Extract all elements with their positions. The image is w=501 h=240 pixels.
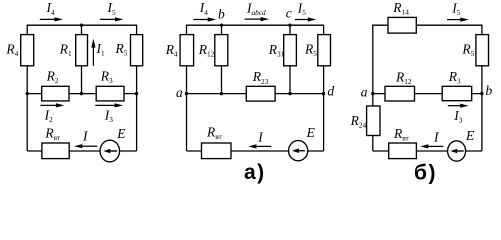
resistor R14 (circuit3)	[388, 17, 416, 33]
resistor R5 (circuit2)	[318, 35, 331, 66]
wire: circuit2 branch c	[289, 25, 291, 93]
junction: circuit1 top node	[80, 24, 83, 27]
resistor R1 (circuit1)	[76, 35, 88, 66]
junction: circuit2 mid R12	[220, 92, 223, 95]
resistor R3 (circuit3)	[442, 86, 472, 100]
resistor R5 (circuit3)	[476, 35, 489, 66]
node c junction (circuit2)	[288, 24, 291, 27]
resistor Rvt (circuit2)	[202, 143, 232, 159]
junction: circuit1 mid-right	[135, 92, 138, 95]
source arrow E (circuit1)	[103, 149, 117, 154]
svg-text:b: b	[218, 7, 225, 22]
source arrow E (circuit3)	[450, 149, 463, 154]
svg-text:d: d	[327, 84, 334, 99]
wire: circuit1 middle horizontal	[27, 93, 136, 95]
current arrow I (circuit3)	[420, 144, 443, 148]
current arrow I3 (circuit3)	[448, 104, 469, 108]
node a junction (circuit2)	[185, 92, 188, 95]
source E (circuit3)	[448, 141, 466, 161]
resistor R24 (circuit3)	[367, 106, 380, 136]
current arrow I4 (circuit2)	[193, 17, 216, 21]
source E (circuit2)	[289, 141, 308, 161]
resistor R3 (circuit1)	[96, 86, 124, 101]
svg-text:E: E	[306, 125, 316, 140]
svg-text:b: b	[486, 83, 493, 98]
svg-text:c: c	[286, 5, 292, 20]
node a junction (circuit3)	[371, 92, 374, 95]
wire: circuit2 right vertical	[323, 25, 325, 152]
wire: circuit1 bottom	[27, 150, 136, 152]
svg-text:a: a	[176, 85, 183, 100]
source arrow E (circuit2)	[292, 148, 305, 153]
svg-text:a: a	[361, 85, 368, 100]
current arrow I2 (circuit1)	[40, 103, 64, 107]
resistor R31 (circuit2)	[284, 35, 297, 66]
svg-text:E: E	[116, 126, 126, 141]
resistor R12 (circuit2)	[215, 35, 228, 66]
wire: circuit3 left vertical	[372, 25, 374, 152]
svg-text:E: E	[465, 128, 475, 143]
svg-text:б): б)	[414, 162, 437, 185]
junction: circuit1 mid-left	[26, 92, 29, 95]
wire: circuit2 left vertical	[186, 25, 188, 152]
wire: circuit1 right vertical	[136, 25, 138, 152]
current arrow I (circuit1)	[74, 144, 97, 148]
current arrow I5 (circuit1)	[100, 17, 124, 21]
source E (circuit1)	[100, 140, 120, 162]
current arrow I3 (circuit1)	[95, 103, 123, 107]
wire: circuit3 middle horizontal a-b	[373, 93, 482, 95]
wire: circuit2 top	[187, 24, 324, 26]
resistor R4 (circuit2)	[180, 35, 194, 66]
resistor R5 (circuit1)	[131, 35, 143, 66]
current arrow I5 (circuit2)	[295, 17, 317, 21]
wire: circuit1 middle branch R1	[81, 25, 83, 93]
current arrow Iabcd (circuit2)	[245, 17, 270, 21]
svg-text:а): а)	[244, 161, 266, 184]
resistor R4 (circuit1)	[21, 35, 34, 66]
current arrow I (circuit2)	[248, 144, 271, 148]
node b junction (circuit2)	[220, 24, 223, 27]
current arrow I4 (circuit1)	[40, 17, 63, 21]
wire: circuit1 top	[27, 24, 136, 26]
wire: circuit3 bottom	[373, 150, 482, 152]
node b junction (circuit3)	[480, 92, 483, 95]
resistor Rvt (circuit3)	[389, 143, 417, 159]
wire: circuit2 branch b	[221, 25, 223, 93]
junction: circuit2 mid R31	[288, 92, 291, 95]
wire: circuit3 top	[373, 24, 482, 26]
wire: circuit1 left vertical	[26, 25, 28, 152]
wire: circuit2 bottom	[187, 150, 324, 152]
wire: circuit2 middle horizontal a-d	[187, 93, 324, 95]
node d junction (circuit2)	[322, 92, 325, 95]
resistor R23 (circuit2)	[246, 86, 275, 101]
current arrow I1 (circuit1)	[91, 39, 95, 66]
resistor R2 (circuit1)	[42, 86, 69, 101]
resistor Rvt (circuit1)	[42, 143, 69, 159]
current arrow I5 (circuit3)	[447, 18, 469, 22]
junction: circuit1 mid-center	[80, 92, 83, 95]
resistor R12 (circuit3)	[385, 86, 415, 101]
wire: circuit3 right vertical	[481, 25, 483, 152]
